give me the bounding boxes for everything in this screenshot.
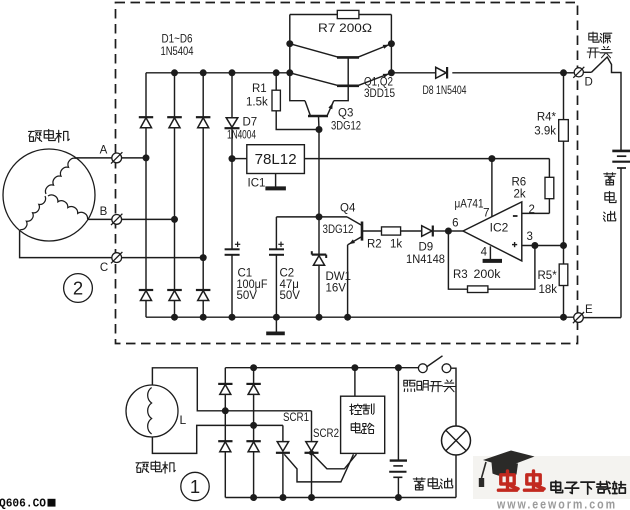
svg-text:1N4004: 1N4004	[227, 130, 256, 142]
label C1 100uF 50V	[237, 268, 268, 303]
node SCR2 cathode-gate	[309, 450, 314, 455]
node bus-SCR2	[308, 494, 315, 501]
wire SCR1 anode	[282, 425, 284, 441]
svg-text:50V: 50V	[237, 290, 258, 302]
diode D9	[422, 226, 449, 237]
wire lamp to bottom bus	[455, 455, 457, 498]
wire SCR2 anode	[311, 411, 313, 442]
svg-text:2k: 2k	[514, 189, 526, 201]
label C	[100, 262, 108, 274]
watermark url	[496, 498, 617, 510]
label DW1 16V	[326, 271, 352, 295]
minus sign pin 2	[513, 215, 518, 217]
svg-text:D: D	[585, 77, 593, 89]
node Q4 collector / C2 / DW1	[316, 213, 323, 220]
label pin 2	[529, 204, 535, 216]
svg-text:3.9k: 3.9k	[534, 126, 556, 138]
regulator IC1 78L12 box	[247, 145, 305, 174]
node emitter riser at Q1	[388, 40, 395, 47]
label IC1	[248, 178, 266, 190]
svg-text:3: 3	[527, 231, 533, 243]
label IC2	[490, 221, 509, 235]
svg-text:1.5k: 1.5k	[246, 97, 268, 109]
node R5 bottom	[560, 314, 567, 321]
terminal C	[111, 252, 122, 263]
label battery bottom (xudianchi)	[413, 478, 452, 490]
transistor Q2	[290, 57, 392, 85]
svg-text:R5*: R5*	[538, 270, 558, 282]
label Q3 3DG12	[331, 108, 361, 133]
svg-text:R7 200Ω: R7 200Ω	[318, 21, 372, 35]
label L	[180, 413, 187, 427]
wire coil top to bridge (upper phase)	[152, 368, 311, 411]
resistor R5	[559, 246, 568, 318]
wire control box to top bus	[354, 368, 356, 397]
power switch lever	[583, 57, 621, 150]
diode bridge bottom-right	[246, 441, 260, 452]
svg-text:C1: C1	[238, 268, 253, 280]
node column3 top	[200, 69, 207, 76]
label pin 7	[483, 208, 489, 220]
label battery (xudianchi) vertical	[604, 173, 617, 222]
node column2 top	[171, 69, 178, 76]
wire top bus circuit 1	[225, 367, 418, 369]
node column2 bottom	[171, 314, 178, 321]
svg-text:A: A	[100, 145, 108, 157]
watermark chongchong red characters	[498, 471, 544, 490]
zener diode DW1	[312, 251, 326, 265]
label Q4 3DG12	[323, 203, 356, 236]
wire D7 column to 78L12 input	[232, 158, 247, 160]
wire C1 bottom lead	[231, 255, 233, 317]
ground under IC1	[265, 174, 286, 189]
wire phase C from winding to terminal C	[20, 230, 112, 258]
wire bridge column 2	[253, 368, 255, 498]
resistor R7	[290, 10, 392, 18]
resistor R6	[545, 159, 554, 214]
svg-text:B: B	[100, 206, 108, 218]
wire pin 2 to R6	[522, 212, 550, 214]
lighting switch	[418, 356, 451, 373]
node phase B junction	[171, 216, 178, 223]
svg-text:C2: C2	[280, 268, 295, 280]
label R2 1k	[367, 239, 402, 251]
wire collector riser (left)	[290, 15, 305, 101]
node C1 bottom	[229, 314, 236, 321]
diode D2	[167, 117, 182, 128]
magneto M1 (circle)	[126, 385, 178, 437]
node phase A junction	[143, 154, 150, 161]
svg-text:1N5404: 1N5404	[161, 44, 194, 58]
svg-text:SCR1: SCR1	[283, 412, 309, 424]
label uA741	[455, 199, 484, 211]
magneto stator M2 (circle)	[3, 149, 95, 241]
wire phase A from winding to terminal A	[76, 157, 112, 159]
label pin 4	[481, 247, 488, 259]
circled number 2	[64, 274, 93, 303]
node pin7 rail junction	[488, 155, 495, 162]
node C2 bottom / ground stub	[273, 314, 280, 321]
svg-text:18k: 18k	[539, 284, 558, 296]
svg-text:Q3: Q3	[338, 108, 353, 120]
label SCR2	[313, 428, 339, 440]
wire D7-C1 column upper	[231, 73, 233, 250]
label R5* 18k	[538, 270, 558, 296]
label pin 6	[452, 218, 458, 230]
wire SCR1 gate	[284, 454, 353, 482]
transistor Q1	[290, 44, 392, 58]
wire DW1 column	[318, 217, 320, 317]
transistor Q3	[305, 86, 348, 130]
diode bridge top-left	[218, 384, 232, 395]
terminal A	[111, 152, 122, 163]
svg-text:R2: R2	[367, 239, 382, 251]
svg-text:R6: R6	[512, 177, 527, 189]
svg-text:D8 1N5404: D8 1N5404	[423, 85, 467, 97]
svg-text:2: 2	[73, 278, 83, 299]
resistor R4	[559, 73, 569, 246]
label R4* 3.9k	[534, 112, 556, 138]
label magneto (bottom)	[136, 461, 175, 473]
svg-text:1: 1	[190, 476, 200, 497]
label R1 1.5k	[246, 83, 268, 109]
wire pin 4 to ground	[489, 246, 491, 259]
svg-text:D9: D9	[419, 242, 434, 254]
wire pin 7 supply	[491, 159, 493, 217]
resistor R3	[448, 231, 535, 293]
node bus-column2	[250, 494, 257, 501]
svg-text:1k: 1k	[390, 239, 402, 251]
svg-text:200k: 200k	[474, 269, 501, 281]
label D1~D6 1N5404	[161, 32, 194, 59]
label D8 1N5404	[423, 85, 467, 97]
magneto Y winding coils	[20, 158, 87, 229]
ground at pin 4	[483, 259, 502, 263]
wire E to battery negative	[583, 317, 621, 319]
wire rectifier column 1	[145, 73, 147, 317]
diode D6	[196, 290, 211, 301]
diode D5	[167, 290, 182, 301]
diode D1	[139, 117, 153, 128]
node phase C junction	[200, 254, 207, 261]
watermark site name characters	[551, 481, 626, 494]
svg-text:16V: 16V	[326, 283, 347, 295]
wire coil bottom to bridge (lower phase)	[152, 425, 283, 453]
wire switch to lamp	[451, 368, 456, 426]
node collector riser at top bus	[286, 69, 293, 76]
label magneto (cishi dianji) for circuit 2	[29, 130, 70, 143]
diode D7	[225, 118, 240, 129]
label A	[100, 145, 108, 157]
node DW1 bottom	[316, 314, 323, 321]
watermark Q606.COM	[0, 497, 56, 510]
svg-text:R4*: R4*	[537, 112, 557, 124]
resistor R1	[272, 73, 319, 130]
svg-text:7: 7	[483, 208, 489, 220]
svg-text:SCR2: SCR2	[313, 428, 339, 440]
label B	[100, 206, 108, 218]
inductor L winding	[148, 388, 152, 435]
label Q1,Q2 3DD15	[364, 77, 395, 101]
label C2 47u 50V	[280, 268, 301, 303]
diode bridge bottom-left	[218, 441, 232, 452]
terminal B	[111, 214, 122, 225]
svg-text:R3: R3	[453, 269, 468, 281]
svg-text:2: 2	[529, 204, 535, 216]
capacitor C1 plates	[225, 242, 241, 255]
node collector riser at Q1	[286, 40, 293, 47]
label R7 200ohm	[318, 21, 372, 35]
wire terminal C to rectifier column 3	[122, 257, 203, 259]
label R6 2k	[512, 177, 527, 201]
wire 12V rail from 78L12 output	[304, 158, 549, 160]
svg-text:6: 6	[452, 218, 458, 230]
node 78L12 input	[229, 155, 236, 162]
label D9 1N4148	[406, 242, 445, 267]
label control circuit (kongzhi dianlu)	[350, 404, 374, 434]
wire rectifier column 2	[174, 73, 176, 317]
label lighting switch (zhaoming kaiguan)	[404, 380, 456, 392]
wire bottom ground bus	[146, 316, 574, 318]
svg-text:3DG12: 3DG12	[323, 224, 354, 236]
wire bridge column 1	[224, 368, 226, 498]
wire bottom bus circuit 1	[225, 497, 456, 499]
svg-text:Q4: Q4	[340, 203, 356, 215]
node column2 top (c1)	[250, 364, 257, 371]
diode D3	[196, 117, 211, 128]
node R1 top	[273, 69, 280, 76]
wire terminal B to rectifier column 2	[122, 218, 175, 220]
node op-amp output junction	[445, 228, 452, 235]
ground below bus	[266, 317, 285, 333]
svg-text:D7: D7	[243, 117, 258, 129]
svg-text:IC1: IC1	[248, 178, 266, 190]
node lower phase at column 2	[250, 422, 257, 429]
node D7 column top	[229, 69, 236, 76]
node emitter riser at bus	[388, 69, 395, 76]
label pin 3	[527, 231, 533, 243]
node battery top	[395, 364, 402, 371]
dashed enclosure of regulator circuit 2	[116, 3, 578, 344]
node battery feed / R4 top	[560, 69, 567, 76]
svg-text:Q606.CO: Q606.CO	[0, 497, 46, 510]
thyristor SCR2	[305, 442, 319, 498]
capacitor C2	[269, 217, 284, 317]
svg-text:C: C	[100, 262, 108, 274]
wire Q3-base column down to Q4 node	[318, 130, 320, 217]
svg-text:www.eeworm.com: www.eeworm.com	[496, 498, 617, 510]
label SCR1	[283, 412, 309, 424]
svg-text:E: E	[585, 304, 593, 316]
svg-text:IC2: IC2	[490, 221, 509, 235]
node pin3-R3	[531, 242, 538, 249]
lamp	[442, 426, 471, 455]
svg-text:R1: R1	[252, 83, 267, 95]
svg-text:3DD15: 3DD15	[364, 88, 395, 100]
diode D4	[139, 290, 153, 301]
node Q3 base junction	[316, 126, 323, 133]
svg-text:4: 4	[481, 247, 488, 259]
wire rectifier column 3	[202, 73, 204, 317]
circled number 1	[181, 472, 209, 500]
watermark graduation cap logo	[479, 451, 535, 488]
svg-text:78L12: 78L12	[255, 152, 297, 168]
wire to op-amp pin 6	[448, 230, 463, 232]
resistor R2	[382, 227, 422, 235]
svg-text:50V: 50V	[280, 290, 301, 302]
wire SCR2 gate	[313, 454, 357, 469]
wire top DC bus (positive raw)	[146, 72, 290, 74]
label E	[585, 304, 593, 316]
label D	[585, 77, 593, 89]
svg-text:1N4148: 1N4148	[406, 254, 445, 266]
wire emitter riser (right)	[390, 15, 392, 73]
svg-text:3DG12: 3DG12	[331, 121, 361, 133]
svg-text:DW1: DW1	[326, 271, 352, 283]
control circuit box	[341, 396, 385, 453]
diode bridge top-right	[246, 384, 260, 395]
label D7 1N4004	[227, 117, 257, 142]
diode D8	[391, 67, 563, 79]
thyristor SCR1	[276, 442, 290, 498]
battery GB (bottom)	[389, 368, 407, 498]
terminal D (power switch pole)	[573, 67, 584, 78]
watermark background tint	[473, 456, 630, 499]
svg-text:μA741: μA741	[455, 199, 484, 211]
transistor Q4	[319, 217, 382, 317]
label R3 200k	[453, 269, 501, 281]
svg-text:Q1,Q2: Q1,Q2	[364, 77, 393, 89]
node Q4 emitter at ground bus	[344, 314, 351, 321]
wire C2 top lead	[276, 216, 319, 218]
wire phase B from winding to terminal B	[88, 218, 112, 220]
node battery bottom	[395, 494, 402, 501]
node bus-SCR1	[280, 494, 287, 501]
svg-text:L: L	[180, 413, 187, 427]
node control box top	[351, 364, 358, 371]
plus sign pin 3	[512, 242, 517, 247]
label power switch (dianyuan kaiguan)	[587, 32, 612, 58]
op-amp IC2 triangle	[463, 202, 522, 261]
wire terminal A to rectifier column 1	[122, 157, 146, 159]
wire to power switch	[564, 72, 574, 74]
battery GB (top)	[612, 151, 630, 318]
wire pin 3 row	[522, 245, 564, 247]
node upper phase at column 1	[222, 407, 229, 414]
node column3 bottom	[200, 314, 207, 321]
node pin3-R4R5	[560, 242, 567, 249]
terminal E	[573, 312, 584, 323]
